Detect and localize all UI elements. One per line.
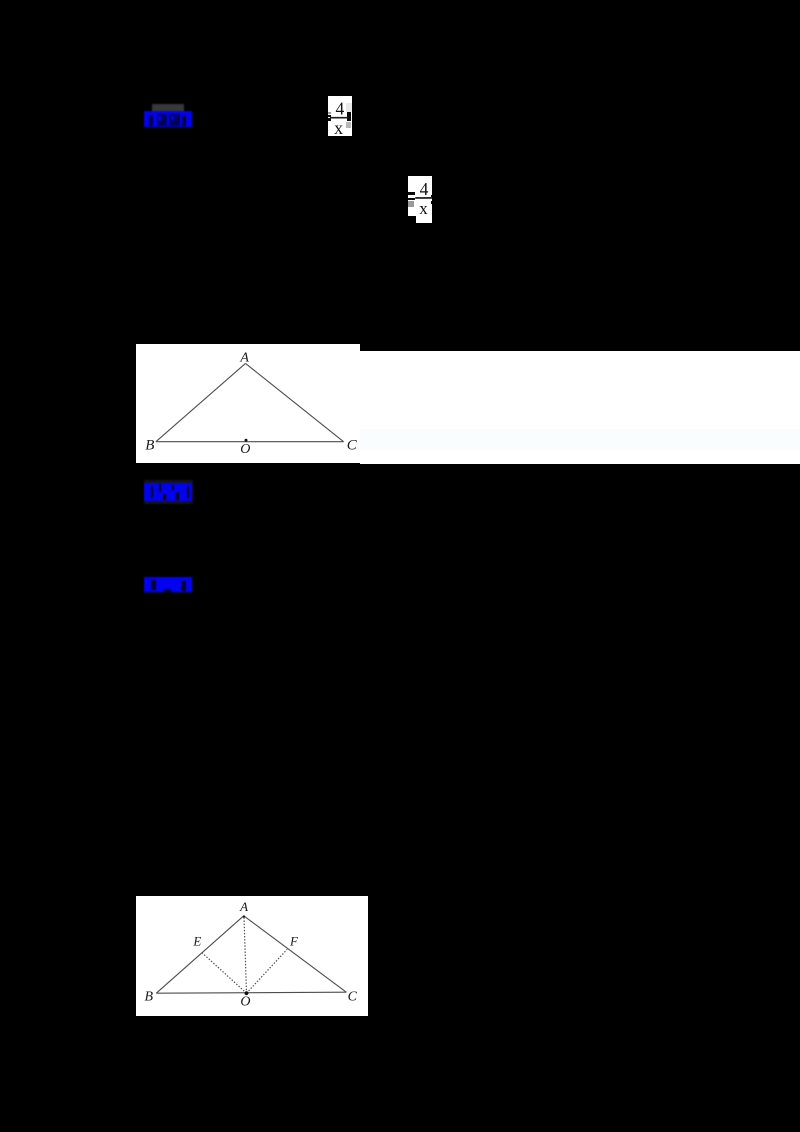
svg-text:O: O (240, 994, 250, 1009)
svg-text:4: 4 (419, 179, 428, 199)
svg-text:4: 4 (335, 98, 344, 118)
equals sign tip upper bar at left edge of fraction image 1 (328, 115, 331, 117)
side BC (156, 991, 346, 994)
small black mark lower right edge of fraction image 2 (431, 201, 432, 205)
svg-text:A: A (239, 350, 249, 365)
svg-text:E: E (192, 933, 201, 948)
equals sign lower bar at left edge of fraction image 2 (408, 198, 415, 201)
fraction bar (330, 117, 348, 119)
fraction 4/x formula #1 (328, 96, 352, 136)
small black mark upper right edge of fraction image 2 (431, 195, 432, 197)
fraction image 2 white background (408, 176, 432, 216)
svg-text:O: O (240, 441, 250, 456)
svg-text:B: B (145, 437, 154, 453)
point O dot (244, 438, 247, 441)
svg-text:C: C (347, 989, 357, 1004)
fraction image 1 gray tick left edge (328, 112, 331, 114)
figure 1: triangle ABC with midpoint O (136, 344, 360, 464)
fraction image 1 light artifact upper right (346, 103, 352, 112)
figure 2: triangle ABC with O, E, F and dashed cevians (136, 896, 368, 1016)
faint tint band inside white strip (360, 429, 800, 450)
svg-text:F: F (289, 933, 299, 948)
label block 1: highlighted section tag (blue highlight, dark glyphs) (130, 95, 210, 140)
fraction bar (415, 197, 432, 199)
dashed segment OE (202, 952, 246, 992)
dashed segment OA (244, 916, 246, 993)
side BA (156, 363, 246, 441)
side BA (156, 915, 243, 992)
fraction image 1 gray artifact lower right (346, 122, 351, 128)
svg-text:B: B (144, 989, 153, 1004)
svg-text:C: C (347, 437, 358, 453)
dashed segment OF (246, 949, 287, 993)
fraction image 1 black mark right edge (347, 112, 352, 121)
equals sign tip lower bar at left edge of fraction image 1 (328, 118, 331, 121)
side BC (156, 440, 344, 442)
fraction image 1 white background (328, 96, 352, 136)
equals sign upper bar at left edge of fraction image 2 (408, 192, 415, 195)
point O dot (244, 991, 248, 995)
side AC (243, 915, 346, 991)
svg-text:x: x (419, 199, 428, 218)
fraction image 2 white extension bottom right (416, 216, 432, 223)
gray artifact square at left edge of fraction image 2 (408, 201, 415, 207)
side AC (245, 363, 343, 441)
fraction 4/x formula #2 (408, 176, 432, 224)
label block 3: blue section tag (130, 565, 210, 610)
point A dot (243, 915, 245, 917)
svg-text:x: x (334, 118, 343, 136)
label block 2: blue section tag (130, 470, 210, 515)
white strip to the right of figure 1 (360, 351, 800, 464)
svg-text:A: A (239, 898, 248, 913)
